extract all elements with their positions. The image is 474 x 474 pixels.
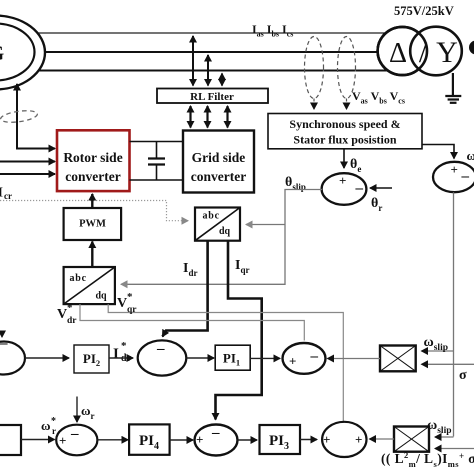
svg-text:–: –	[461, 169, 470, 185]
svg-text:θr: θr	[371, 196, 382, 213]
svg-text:+: +	[289, 354, 296, 369]
svg-text:–: –	[0, 336, 8, 352]
svg-text:V: V	[57, 307, 67, 322]
svg-text:θe: θe	[350, 157, 361, 174]
svg-text:–: –	[211, 425, 220, 441]
svg-text:(( L2m/ Ls)Ims+ σ: (( L2m/ Ls)Ims+ σ	[381, 450, 474, 469]
svg-text:abc: abc	[70, 273, 87, 284]
svg-text:ωr: ωr	[81, 403, 95, 421]
svg-text:+: +	[196, 432, 203, 447]
svg-text:ω: ω	[467, 148, 474, 163]
svg-text:I: I	[113, 346, 119, 362]
svg-text:σ: σ	[459, 368, 467, 383]
svg-text:–: –	[310, 349, 319, 365]
svg-text:converter: converter	[65, 169, 120, 184]
svg-text:ωslip: ωslip	[427, 418, 452, 436]
svg-text:ω: ω	[41, 418, 51, 433]
svg-text:PWM: PWM	[79, 219, 106, 230]
svg-text:Grid side: Grid side	[192, 150, 246, 165]
svg-text:*: *	[121, 340, 127, 352]
svg-text:cr: cr	[4, 191, 12, 201]
svg-text:–: –	[355, 181, 364, 197]
svg-text:*: *	[67, 302, 73, 314]
svg-text:Δ: Δ	[389, 38, 407, 69]
svg-text:Iqr: Iqr	[235, 258, 249, 275]
svg-text:+: +	[59, 433, 66, 448]
svg-text:Idr: Idr	[183, 261, 197, 278]
svg-text:RL Filter: RL Filter	[190, 91, 234, 103]
svg-text:Vas Vbs Vcs: Vas Vbs Vcs	[352, 89, 405, 106]
svg-text:Ias Ibs Ics: Ias Ibs Ics	[252, 22, 293, 39]
svg-text:qr: qr	[127, 305, 137, 315]
svg-text:/: /	[419, 36, 428, 69]
svg-text:575V/25kV: 575V/25kV	[394, 4, 454, 18]
svg-text:+: +	[323, 432, 330, 447]
svg-text:r: r	[52, 426, 56, 436]
svg-text:–: –	[156, 341, 165, 357]
svg-text:V: V	[117, 296, 127, 311]
svg-text:+: +	[451, 162, 458, 177]
svg-text:converter: converter	[191, 169, 246, 184]
svg-text:dq: dq	[96, 291, 108, 302]
svg-text:Y: Y	[436, 36, 458, 69]
svg-text:dr: dr	[67, 316, 77, 326]
svg-text:+: +	[339, 173, 346, 188]
svg-text:I: I	[0, 186, 3, 201]
svg-text:Stator flux posistion: Stator flux posistion	[293, 133, 396, 147]
svg-text:Synchronous speed &: Synchronous speed &	[289, 117, 400, 131]
svg-text:Rotor side: Rotor side	[63, 150, 122, 165]
svg-text:dq: dq	[219, 226, 231, 237]
svg-text:abc: abc	[203, 211, 220, 222]
svg-text:*: *	[127, 291, 133, 303]
svg-text:G: G	[0, 41, 4, 65]
svg-text:–: –	[70, 426, 79, 442]
svg-text:ωslip: ωslip	[424, 335, 449, 353]
svg-text:+: +	[355, 432, 362, 447]
